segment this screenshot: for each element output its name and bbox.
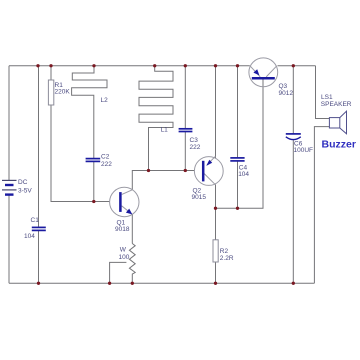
svg-text:9018: 9018 [115,226,130,233]
svg-text:104: 104 [24,233,35,240]
svg-text:Q3: Q3 [279,83,288,90]
svg-text:222: 222 [101,161,112,168]
svg-text:9015: 9015 [192,194,207,201]
svg-text:L1: L1 [161,127,169,134]
svg-text:SPEAKER: SPEAKER [321,101,352,108]
svg-text:Buzzer: Buzzer [322,139,356,151]
svg-text:L2: L2 [101,97,109,104]
svg-text:W: W [120,246,127,253]
svg-text:222: 222 [190,144,201,151]
svg-text:C1: C1 [31,217,40,224]
svg-text:100: 100 [119,254,130,261]
svg-text:100UF: 100UF [294,147,314,154]
svg-text:9012: 9012 [279,90,294,97]
svg-text:DC: DC [18,179,28,186]
svg-text:C2: C2 [101,154,110,161]
svg-text:104: 104 [238,171,249,178]
svg-text:3-5V: 3-5V [18,188,32,195]
svg-text:2.2R: 2.2R [220,255,234,262]
svg-text:220K: 220K [55,89,71,96]
